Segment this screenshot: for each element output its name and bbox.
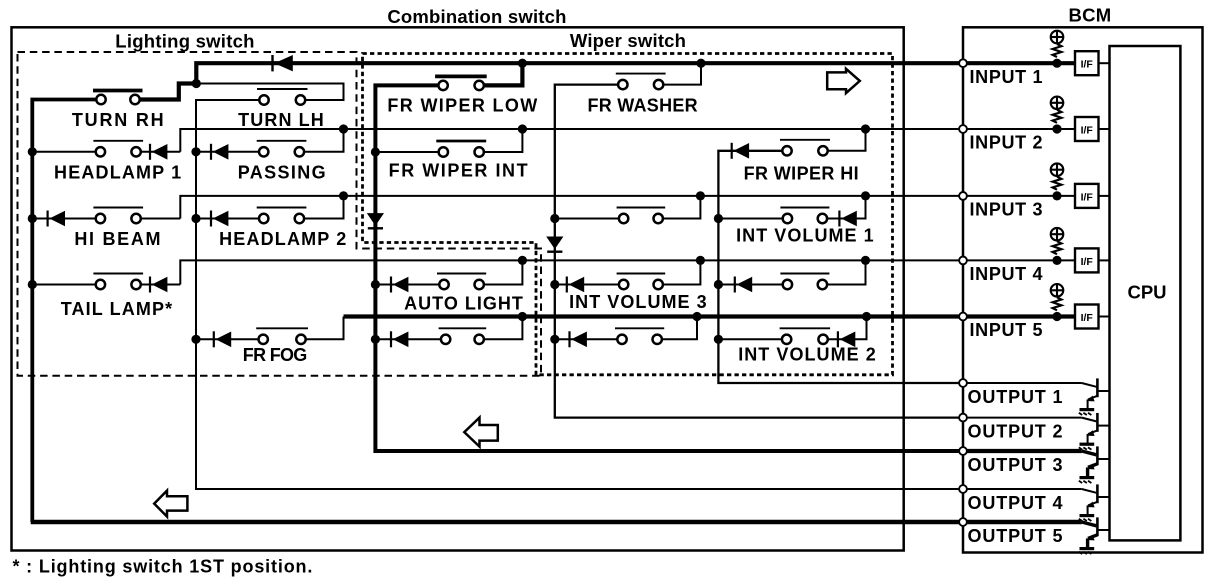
svg-text:I/F: I/F xyxy=(1081,125,1094,137)
junction INT VOLUME 2 / INPUT 5 xyxy=(862,312,871,321)
junction auto-box lower / INPUT 5 xyxy=(518,312,527,321)
junction pull-up / INPUT 1 xyxy=(1052,59,1061,68)
wire HEADLAMP 1 right diode leg xyxy=(141,151,181,153)
wire wiper mid switch row6 left diode leg xyxy=(555,338,618,340)
switch FR WIPER INT xyxy=(436,141,486,157)
wire HEADLAMP 1 left xyxy=(32,151,95,153)
junction FR WASHER / INPUT 1 xyxy=(696,59,705,68)
junction x718 / row4 right diode xyxy=(714,280,723,289)
wire auto-box lower switch left diode leg xyxy=(375,338,441,340)
svg-text:Wiper switch: Wiper switch xyxy=(570,30,686,51)
svg-text:CPU: CPU xyxy=(1127,282,1166,303)
wire INPUT 1 inside BCM xyxy=(963,61,1075,65)
ground OUTPUT 3 xyxy=(1079,478,1094,483)
node A (TURN RH/LH junction) xyxy=(192,79,201,88)
wire HI BEAM left diode leg xyxy=(32,218,95,220)
transistor OUTPUT 2 driver xyxy=(1086,413,1109,443)
switch HEADLAMP 1 xyxy=(93,141,143,157)
junction PASSING loop / INPUT 2 xyxy=(339,124,348,133)
wire node A to TURN LH loop xyxy=(196,84,343,101)
transistor OUTPUT 3 driver xyxy=(1086,446,1109,476)
battery plus symbol INPUT 4 xyxy=(1050,227,1064,241)
diode in OUTPUT 3 bus xyxy=(367,213,384,228)
CPU box xyxy=(1110,46,1181,540)
wire auto-box lower switch right to INPUT 5 xyxy=(484,317,523,340)
junction FR WIPER INT / INPUT 2 xyxy=(518,124,527,133)
wire OUTPUT 5 line xyxy=(31,520,963,525)
switch TURN RH xyxy=(93,91,143,105)
diode FR FOG input xyxy=(214,331,231,347)
terminal OUTPUT 3 xyxy=(959,447,967,455)
wire OUTPUT 4 to transistor collector xyxy=(963,489,1096,493)
ground OUTPUT 1 xyxy=(1079,410,1094,415)
wire FR WIPER HI diode / x718 column / OUTPUT 1 line xyxy=(718,151,963,383)
lighting switch dashed box xyxy=(18,52,542,376)
svg-text:INPUT 5: INPUT 5 xyxy=(970,320,1044,340)
junction left bus / HEADLAMP 1 xyxy=(28,147,37,156)
switch wiper row3 mid xyxy=(617,208,666,224)
svg-text:HEADLAMP 2: HEADLAMP 2 xyxy=(219,229,347,249)
svg-text:I/F: I/F xyxy=(1081,256,1094,268)
terminal INPUT 2 xyxy=(959,125,967,133)
diode HEADLAMP 1 output xyxy=(150,144,167,160)
battery plus symbol INPUT 5 xyxy=(1050,283,1064,297)
battery plus symbol INPUT 1 xyxy=(1050,30,1064,44)
switch INT VOLUME 1 xyxy=(780,208,829,224)
wiper switch dashed box xyxy=(363,54,893,375)
junction x196 / FR FOG diode xyxy=(191,335,200,344)
svg-text:TURN LH: TURN LH xyxy=(238,110,325,130)
wire PASSING left diode leg xyxy=(196,151,259,153)
switch PASSING xyxy=(257,141,307,157)
wire FR WIPER INT left xyxy=(375,151,438,153)
wire OUTPUT 5 to transistor collector xyxy=(963,522,1096,526)
svg-text:INPUT 4: INPUT 4 xyxy=(970,264,1044,284)
junction row3 mid switch / INPUT 3 xyxy=(696,191,705,200)
wire HEADLAMP 2 left diode leg xyxy=(196,218,259,220)
ground OUTPUT 5 xyxy=(1079,549,1094,554)
svg-text:FR FOG: FR FOG xyxy=(243,345,307,365)
wire TAIL LAMP right diode leg xyxy=(141,284,181,286)
switch FR FOG xyxy=(256,328,308,344)
battery plus symbol INPUT 2 xyxy=(1050,96,1064,110)
wire wiper right switch row4 left diode leg xyxy=(718,284,782,286)
BCM box xyxy=(963,27,1203,552)
junction left bus / TAIL LAMP xyxy=(28,280,37,289)
diode AUTO LIGHT input xyxy=(391,277,408,293)
wire FR WIPER INT right to INPUT 2 xyxy=(484,129,523,152)
svg-text:FR WIPER INT: FR WIPER INT xyxy=(389,161,529,181)
svg-text:I/F: I/F xyxy=(1081,59,1094,71)
diode on INPUT 1 line xyxy=(273,55,293,71)
terminal OUTPUT 4 xyxy=(959,485,967,493)
terminal INPUT 4 xyxy=(959,257,967,265)
wire INT VOLUME 3 left diode leg xyxy=(555,284,619,286)
pull-up resistor INPUT 4 xyxy=(1053,241,1062,254)
diode wiper row6 mid switch input xyxy=(570,331,587,347)
svg-text:INT VOLUME 3: INT VOLUME 3 xyxy=(569,292,708,312)
wire AUTO LIGHT left diode leg xyxy=(375,284,439,286)
junction INT VOLUME 1 / INPUT 3 xyxy=(861,191,870,200)
svg-text:I/F: I/F xyxy=(1081,312,1094,324)
switch FR WASHER xyxy=(616,74,666,90)
pull-up resistor INPUT 5 xyxy=(1053,297,1062,310)
wire FR WASHER right to INPUT 1 xyxy=(664,63,701,84)
junction x196 / PASSING diode xyxy=(191,147,200,156)
svg-text:FR WIPER HI: FR WIPER HI xyxy=(744,163,859,183)
wire INT VOLUME 1 left xyxy=(718,218,782,220)
svg-text:OUTPUT 5: OUTPUT 5 xyxy=(968,526,1064,546)
svg-text:I/F: I/F xyxy=(1081,191,1094,203)
transistor OUTPUT 4 driver xyxy=(1086,484,1109,514)
svg-text:Combination switch: Combination switch xyxy=(387,6,566,27)
wire HI BEAM right xyxy=(141,218,181,220)
junction FR WIPER HI / INPUT 2 xyxy=(861,124,870,133)
wire TURN RH right to INPUT 1 line xyxy=(135,63,963,99)
block arrow right (inputs) xyxy=(827,69,860,93)
wire FR FOG right to INPUT 5 xyxy=(306,317,344,340)
switch INT VOLUME 2 xyxy=(780,328,831,344)
diode PASSING input xyxy=(211,144,228,160)
switch INT VOLUME 3 xyxy=(617,274,666,290)
wire left bus to TURN RH xyxy=(32,100,96,523)
wire OUTPUT 1 to transistor collector xyxy=(963,383,1096,387)
svg-text:HI BEAM: HI BEAM xyxy=(74,229,162,249)
junction OUTPUT3 bus / AUTO LIGHT diode xyxy=(371,280,380,289)
diode HEADLAMP 2 input xyxy=(211,211,228,227)
wire INT VOLUME 2 left xyxy=(718,338,782,340)
diode INT VOLUME 2 output xyxy=(838,331,855,347)
junction x196 / HEADLAMP 2 diode xyxy=(191,214,200,223)
wire wiper mid switch row3 left xyxy=(555,218,619,220)
svg-text:FR WASHER: FR WASHER xyxy=(588,96,698,116)
wire INPUT 2 inside BCM xyxy=(963,128,1075,130)
junction row6 mid switch / INPUT 5 xyxy=(692,312,701,321)
wire INPUT 5 inside BCM xyxy=(963,314,1075,318)
combination switch box xyxy=(12,27,904,550)
svg-text:INPUT 1: INPUT 1 xyxy=(970,67,1044,87)
ground OUTPUT 2 xyxy=(1079,444,1094,449)
diode in OUTPUT 2 column xyxy=(546,237,563,252)
terminal INPUT 1 xyxy=(959,59,967,67)
wire wiper mid switch row3 right to INPUT 3 xyxy=(663,196,701,219)
svg-text:INPUT 2: INPUT 2 xyxy=(970,133,1044,153)
switch HI BEAM xyxy=(93,208,143,224)
svg-text:HEADLAMP 1: HEADLAMP 1 xyxy=(54,163,182,183)
switch FR WIPER HI xyxy=(780,140,830,156)
svg-text:FR WIPER LOW: FR WIPER LOW xyxy=(387,96,538,116)
wire INPUT 4 inside BCM xyxy=(963,259,1075,261)
wire TURN LH left / x196 column / OUTPUT 4 line xyxy=(196,100,963,489)
wire FR WIPER LOW left / OUTPUT 3 bus xyxy=(375,85,963,451)
pull-up resistor INPUT 3 xyxy=(1053,177,1062,190)
diode FR WIPER HI input xyxy=(732,143,749,159)
wire wiper right switch row4 right to INPUT 4 xyxy=(827,260,865,284)
junction OUTPUT3 bus / FR WIPER INT xyxy=(371,147,380,156)
svg-text:* : Lighting switch 1ST positi: * : Lighting switch 1ST position. xyxy=(13,556,314,576)
terminal OUTPUT 5 xyxy=(959,518,967,526)
svg-text:INT VOLUME 2: INT VOLUME 2 xyxy=(738,344,877,364)
transistor OUTPUT 5 driver xyxy=(1086,517,1109,547)
wire HEADLAMP 2 right loop xyxy=(304,196,343,219)
wire INPUT 3 line xyxy=(180,196,963,219)
junction x555 / INT VOLUME 3 diode xyxy=(550,280,559,289)
svg-text:TURN RH: TURN RH xyxy=(72,110,166,130)
wire INT VOLUME 3 right to INPUT 4 xyxy=(663,260,701,284)
junction x555 / row3 mid switch xyxy=(550,214,559,223)
transistor OUTPUT 1 driver xyxy=(1086,378,1109,408)
ground OUTPUT 4 xyxy=(1079,516,1094,521)
block arrow left (OUTPUT 5) xyxy=(154,491,187,517)
pull-up resistor INPUT 2 xyxy=(1053,110,1062,123)
terminal INPUT 5 xyxy=(959,313,967,321)
switch TURN LH xyxy=(257,89,308,105)
junction FR WIPER LOW / INPUT 1 xyxy=(518,59,527,68)
diode HI BEAM input xyxy=(48,211,65,227)
svg-text:OUTPUT 1: OUTPUT 1 xyxy=(968,387,1064,407)
junction x555 / row6 mid diode xyxy=(550,335,559,344)
wire INPUT 5 line xyxy=(344,314,964,318)
wire INT VOLUME 2 right diode to INPUT 5 xyxy=(828,317,867,340)
junction pull-up / INPUT 2 xyxy=(1052,124,1061,133)
wire INT VOLUME 1 right diode to INPUT 3 xyxy=(827,196,865,219)
wire wiper mid switch row6 right to INPUT 5 xyxy=(662,317,697,340)
battery plus symbol INPUT 3 xyxy=(1050,163,1064,177)
diode INT VOLUME 3 input xyxy=(567,277,584,293)
wire INPUT 3 inside BCM xyxy=(963,195,1075,197)
I/F box INPUT 2 xyxy=(1075,117,1099,141)
junction pull-up / INPUT 4 xyxy=(1052,256,1061,265)
svg-text:OUTPUT 4: OUTPUT 4 xyxy=(968,493,1064,513)
svg-text:OUTPUT 2: OUTPUT 2 xyxy=(968,422,1064,442)
wire PASSING right loop xyxy=(304,129,343,152)
svg-text:INT VOLUME 1: INT VOLUME 1 xyxy=(736,226,875,246)
svg-text:Lighting switch: Lighting switch xyxy=(115,31,254,52)
switch auto-box lower xyxy=(439,328,487,344)
junction HEADLAMP 2 / INPUT 3 xyxy=(339,191,348,200)
diode TAIL LAMP output xyxy=(150,277,167,293)
diode wiper row4 switch input xyxy=(735,277,752,293)
wire INPUT 4 line xyxy=(180,260,963,284)
wire OUTPUT 2 to transistor collector xyxy=(963,418,1096,422)
switch wiper row4 right xyxy=(780,274,829,290)
junction pull-up / INPUT 3 xyxy=(1052,191,1061,200)
terminal OUTPUT 2 xyxy=(959,414,967,422)
I/F box INPUT 4 xyxy=(1075,248,1099,272)
junction INT VOLUME 3 / INPUT 4 xyxy=(696,256,705,265)
svg-text:PASSING: PASSING xyxy=(238,163,327,183)
switch AUTO LIGHT xyxy=(437,274,486,290)
svg-text:AUTO LIGHT: AUTO LIGHT xyxy=(404,293,524,313)
wire OUTPUT 3 to transistor collector xyxy=(963,451,1096,455)
svg-text:BCM: BCM xyxy=(1068,5,1111,26)
switch HEADLAMP 2 xyxy=(257,208,307,224)
I/F box INPUT 3 xyxy=(1075,184,1099,208)
block arrow left (OUTPUT 3) xyxy=(464,418,498,447)
wire FR WASHER left / x555 column / OUTPUT 2 line xyxy=(555,85,963,418)
I/F box INPUT 5 xyxy=(1075,305,1099,329)
I/F box INPUT 1 xyxy=(1075,51,1099,75)
diode auto-box lower switch input xyxy=(391,331,408,347)
svg-text:OUTPUT 3: OUTPUT 3 xyxy=(968,455,1064,475)
svg-text:INPUT 3: INPUT 3 xyxy=(970,200,1044,220)
junction AUTO LIGHT / INPUT 4 xyxy=(518,256,527,265)
wire FR WIPER LOW right to INPUT 1 xyxy=(479,63,522,85)
diode INT VOLUME 1 output xyxy=(839,211,856,227)
junction row4 right switch / INPUT 4 xyxy=(861,256,870,265)
junction x718 / INT VOLUME 2 xyxy=(714,335,723,344)
junction pull-up / INPUT 5 xyxy=(1052,312,1061,321)
terminal OUTPUT 1 xyxy=(959,379,967,387)
junction left bus / HI BEAM xyxy=(28,214,37,223)
switch wiper row6 mid xyxy=(615,328,664,344)
junction x718 / INT VOLUME 1 xyxy=(714,214,723,223)
pull-up resistor INPUT 1 xyxy=(1053,44,1062,57)
wire AUTO LIGHT right to INPUT 4 xyxy=(484,260,523,284)
switch FR WIPER LOW xyxy=(435,76,487,90)
wire TAIL LAMP left xyxy=(32,284,95,286)
wire FR FOG left diode leg xyxy=(196,338,259,340)
wire FR WIPER HI right to INPUT 2 xyxy=(828,129,866,151)
terminal INPUT 3 xyxy=(959,192,967,200)
junction OUTPUT3 bus / lower switch diode xyxy=(371,335,380,344)
switch TAIL LAMP xyxy=(93,274,143,290)
svg-text:TAIL LAMP*: TAIL LAMP* xyxy=(61,299,173,319)
wire INPUT 2 line xyxy=(180,129,963,152)
